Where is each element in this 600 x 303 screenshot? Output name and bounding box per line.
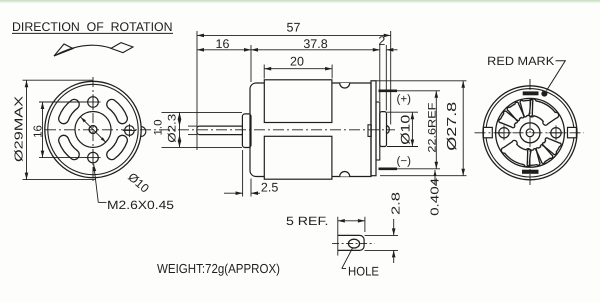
- front view top screw hole: [85, 94, 100, 109]
- rear big vent wedge lower-left: [501, 140, 531, 166]
- dimension 0.404 (terminal thickness): [430, 170, 442, 216]
- dimension 2 (boss protrusion): [378, 34, 397, 51]
- svg-text:57: 57: [287, 20, 301, 34]
- svg-text:2.8: 2.8: [391, 192, 403, 215]
- rear bearing bump: [387, 126, 390, 134]
- svg-text:DIRECTION OF ROTATION: DIRECTION OF ROTATION: [12, 20, 173, 34]
- dimension 20 (label band): [264, 55, 332, 79]
- front view bottom screw hole: [85, 150, 100, 165]
- label band upper panel: [264, 80, 332, 123]
- rear right screw hole: [549, 125, 564, 140]
- title underline: [12, 32, 173, 34]
- svg-text:Ø10: Ø10: [398, 115, 412, 145]
- front bearing boss circle: [75, 112, 111, 148]
- dimension O27.8: [376, 81, 467, 176]
- extension line at mounting face: [250, 45, 252, 82]
- can crimp notch bottom: [340, 172, 350, 177]
- svg-text:RED MARK: RED MARK: [487, 54, 554, 68]
- motor shaft: [197, 126, 243, 135]
- svg-text:0.404: 0.404: [430, 177, 442, 216]
- dimension 5 REF.: [286, 214, 365, 232]
- page top green strip: [0, 0, 600, 2]
- svg-text:2: 2: [378, 34, 385, 48]
- dimension 57: [197, 20, 391, 37]
- rear view outer circle: [483, 86, 577, 180]
- extension line at shaft tip: [196, 31, 198, 150]
- rear shaft end circle: [526, 129, 534, 137]
- red mark dot: [542, 91, 547, 96]
- rotation direction curved arrow: [54, 43, 133, 56]
- extension line at bearing end: [390, 31, 392, 125]
- rear bottom terminal bar: [523, 170, 539, 173]
- rear small vent wedge lower-right 2: [536, 145, 553, 164]
- rear small vent wedge upper-left 3: [499, 111, 518, 128]
- terminal detail centerline: [332, 243, 374, 245]
- motor can body: [250, 83, 371, 177]
- rear vertical centerline: [529, 79, 531, 187]
- front bearing boss (side): [242, 114, 251, 148]
- dimension 16 (shaft length): [197, 37, 251, 52]
- svg-text:WEIGHT:72g(APPROX): WEIGHT:72g(APPROX): [157, 261, 280, 276]
- detail extension line left: [337, 217, 339, 256]
- red mark leader: [547, 61, 566, 91]
- svg-text:16: 16: [216, 37, 230, 51]
- leader and label M2.6X0.45: [93, 164, 175, 212]
- svg-text:HOLE: HOLE: [348, 265, 379, 279]
- svg-text:2.5: 2.5: [261, 181, 278, 195]
- front view outer circle: [45, 81, 141, 177]
- extension line at boss base: [379, 45, 381, 101]
- main horizontal centerline: [45, 129, 395, 131]
- rear brush housing: [376, 102, 380, 160]
- svg-text:(−): (−): [397, 155, 412, 167]
- rear view inner rim circle: [486, 89, 574, 177]
- rear horizontal centerline: [475, 132, 585, 134]
- rear small vent wedge lower-right 1: [527, 149, 540, 167]
- svg-text:22.6REF: 22.6REF: [427, 102, 439, 152]
- rear bearing boss O10: [380, 112, 387, 147]
- rear endcap face circle: [496, 98, 565, 167]
- rear small vent wedge lower-right 3: [542, 138, 561, 155]
- dimension O29MAX: [14, 80, 96, 179]
- rear right crimp tab: [568, 127, 577, 137]
- svg-text:5 REF.: 5 REF.: [286, 214, 329, 228]
- svg-text:Ø29MAX: Ø29MAX: [14, 96, 26, 162]
- rear top terminal bar: [523, 92, 538, 95]
- svg-text:16: 16: [32, 125, 44, 138]
- leader and label HOLE: [342, 248, 379, 279]
- front view inner rim circle: [48, 84, 138, 174]
- shaft circle: [89, 126, 97, 134]
- dimension 2.5 (mounting face offset): [224, 150, 278, 197]
- extension line at boss face: [385, 45, 387, 111]
- dimension 16 (hole pitch): [32, 102, 87, 158]
- label band lower panel: [264, 136, 332, 179]
- front view upper-left vent slot: [59, 99, 80, 123]
- terminal (-) side view: [379, 168, 398, 171]
- rear big vent wedge upper-right: [529, 99, 559, 125]
- rear endcap rim: [371, 81, 376, 176]
- dimension 22.6REF: [397, 91, 440, 169]
- dimension O2.3 (shaft): [167, 114, 198, 143]
- rear left crimp tab: [483, 127, 492, 137]
- terminal detail outline: [338, 235, 364, 250]
- front view lower-right vent slot: [107, 135, 128, 159]
- front view right pilot hole: [123, 124, 136, 137]
- terminal (+) side view: [379, 90, 398, 93]
- svg-text:(+): (+): [397, 93, 412, 105]
- terminal detail hole: [348, 239, 359, 248]
- svg-text:M2.6X0.45: M2.6X0.45: [107, 198, 174, 212]
- dimension 2.8: [365, 192, 403, 263]
- dimension 37.8: [251, 37, 380, 52]
- front view vertical centerline: [92, 77, 94, 181]
- rear small vent wedge upper-left 1: [520, 99, 533, 117]
- rear hub circle: [520, 123, 540, 143]
- rear small vent wedge upper-left 2: [507, 102, 524, 121]
- front view upper-right vent slot: [107, 99, 128, 123]
- boss diameter dimension diagonal: [81, 117, 106, 142]
- dimension O10 (rear boss): [387, 112, 418, 146]
- svg-text:1.0: 1.0: [153, 120, 165, 136]
- can crimp notch top: [340, 83, 350, 88]
- front view lower-left vent slot: [59, 135, 80, 159]
- shaft stub inside can: [368, 125, 371, 137]
- svg-text:37.8: 37.8: [303, 37, 327, 51]
- dimension 1.0 (front boss): [153, 112, 243, 147]
- svg-text:20: 20: [290, 55, 304, 69]
- front view right crimp tab bump: [141, 127, 146, 137]
- svg-text:Ø27.8: Ø27.8: [444, 102, 459, 151]
- rear left screw hole: [497, 125, 512, 140]
- svg-text:Ø2.3: Ø2.3: [167, 114, 179, 143]
